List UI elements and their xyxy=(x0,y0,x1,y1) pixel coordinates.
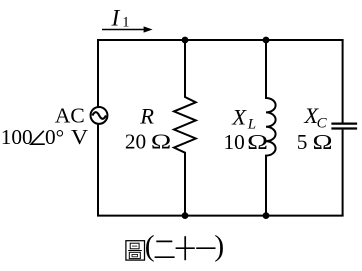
label XL xyxy=(231,104,256,132)
svg-text:100: 100 xyxy=(1,125,33,149)
node: bottom-right junction xyxy=(263,212,270,219)
capacitor XC xyxy=(331,124,357,129)
svg-text:): ) xyxy=(214,230,224,262)
label 5 Ω xyxy=(297,130,333,154)
label I1 xyxy=(111,5,130,31)
wire: right rail upper (capacitor top lead) xyxy=(342,40,344,123)
inductor XL xyxy=(266,40,276,216)
label XC xyxy=(303,103,327,131)
svg-text:(: ( xyxy=(145,230,155,262)
caption: hanzi 一 (one) xyxy=(196,247,215,249)
wire: left rail upper (source top lead) xyxy=(97,40,99,106)
svg-text:I: I xyxy=(111,5,121,31)
AC source V1 xyxy=(91,107,108,124)
svg-text:AC: AC xyxy=(55,103,85,127)
svg-text:0°: 0° xyxy=(45,125,64,149)
wire: left rail lower (source bottom lead) xyxy=(97,125,99,216)
svg-text:Ω: Ω xyxy=(313,130,333,154)
wire: right rail lower (capacitor bottom lead) xyxy=(342,130,344,216)
current arrow I1 xyxy=(102,26,153,32)
node: top-left junction xyxy=(182,37,189,44)
svg-text:Ω: Ω xyxy=(151,129,171,153)
label 20 Ω xyxy=(125,129,171,153)
svg-text:20: 20 xyxy=(125,129,146,153)
resistor R xyxy=(174,40,196,216)
label 10 Ω xyxy=(224,130,269,154)
svg-text:R: R xyxy=(139,103,154,128)
caption: hanzi 十 (ten) xyxy=(176,236,195,260)
node: bottom-left junction xyxy=(182,212,189,219)
svg-text:Ω: Ω xyxy=(247,130,268,154)
svg-text:5: 5 xyxy=(297,130,308,154)
svg-text:10: 10 xyxy=(224,130,245,154)
svg-text:X: X xyxy=(231,104,247,129)
caption: hanzi 圖 (figure) drawn as strokes xyxy=(126,241,145,260)
svg-text:1: 1 xyxy=(122,14,129,30)
node: top-right junction xyxy=(263,37,270,44)
wire: bottom rail xyxy=(98,215,343,217)
wire: top rail xyxy=(98,39,343,41)
caption: hanzi 二 (two) xyxy=(155,241,175,257)
svg-text:V: V xyxy=(71,125,89,149)
label 100∠0° V xyxy=(1,125,89,149)
